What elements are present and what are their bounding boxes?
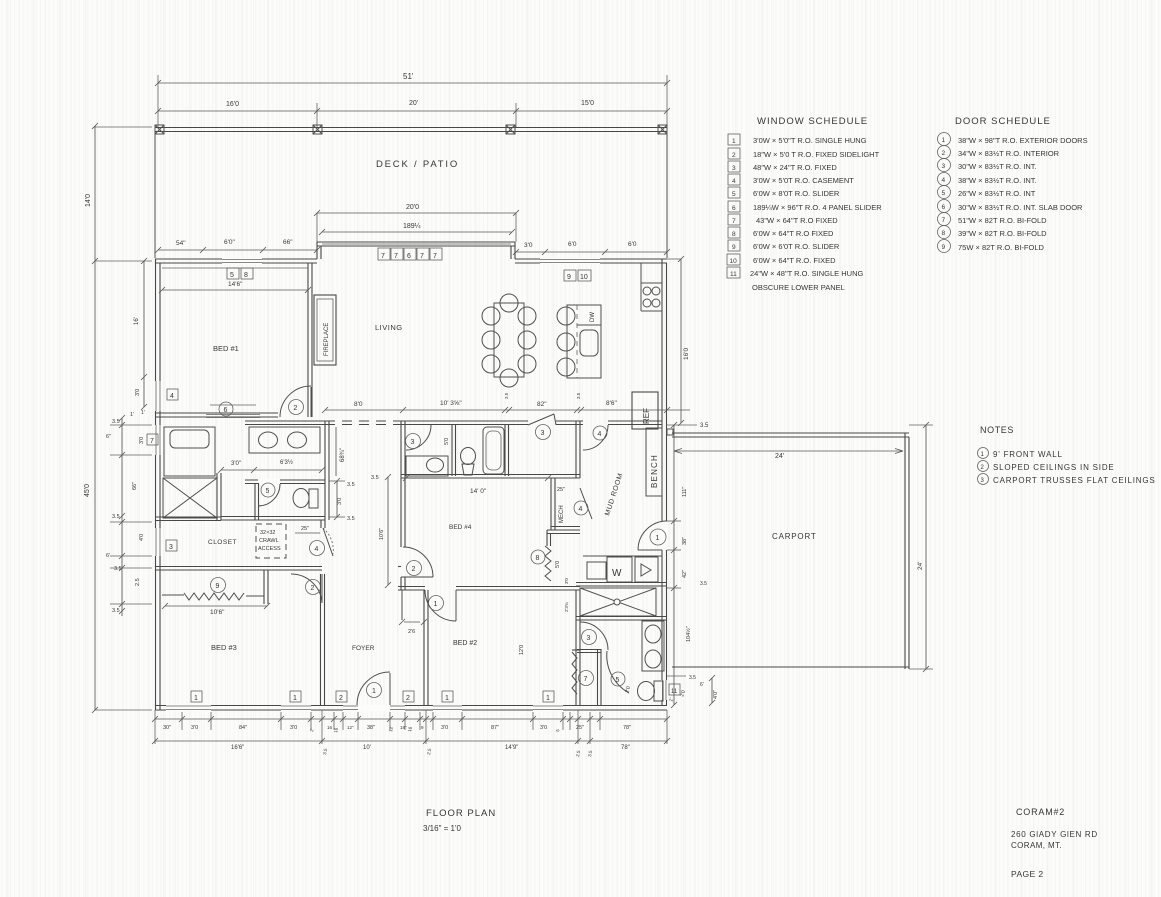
bed4 closet top: [547, 529, 580, 531]
bench box: [646, 428, 662, 496]
svg-text:5: 5: [266, 488, 270, 495]
window 9/10 opening: [540, 258, 600, 264]
svg-text:BED #3: BED #3: [211, 643, 237, 652]
tub wall: [504, 425, 506, 476]
svg-text:2: 2: [311, 585, 315, 592]
svg-text:16'0: 16'0: [226, 101, 239, 108]
door tag 3: [536, 425, 551, 440]
dim 24' carport right: [925, 425, 927, 669]
svg-text:38"W × 98"T R.O. EXTERIOR D: 38"W × 98"T R.O. EXTERIOR DOORS: [958, 136, 1088, 145]
dimension 189 1/4: [322, 231, 512, 233]
svg-text:16': 16': [134, 317, 140, 325]
svg-text:84": 84": [239, 725, 247, 731]
dimension 20'0 over living bump: [317, 212, 516, 214]
svg-text:3.5: 3.5: [700, 423, 709, 429]
window tag 2: [336, 691, 347, 702]
svg-text:3.5: 3.5: [504, 392, 509, 399]
svg-text:3.5: 3.5: [112, 608, 120, 614]
svg-text:3'0: 3'0: [441, 725, 448, 731]
svg-text:3: 3: [541, 430, 545, 437]
svg-text:10'6": 10'6": [210, 609, 225, 616]
bottom exterior wall: [155, 705, 667, 707]
svg-text:4'0": 4'0": [713, 690, 719, 699]
svg-text:10': 10': [363, 745, 371, 751]
svg-text:3.5: 3.5: [347, 516, 355, 522]
dim 14'6" bed1: [162, 289, 308, 291]
window tag 5: [227, 268, 239, 279]
svg-text:189¼W × 96"T R.O. 4 PANEL SL: 189¼W × 96"T R.O. 4 PANEL SLIDER: [753, 203, 882, 212]
svg-text:14'0: 14'0: [85, 194, 92, 207]
door schedule rows: [938, 133, 1088, 146]
svg-text:6'0: 6'0: [628, 241, 637, 248]
door tag 8: [531, 550, 545, 564]
svg-text:38": 38": [682, 537, 688, 545]
svg-text:6'0W × 8'0T R.O. SLIDER: 6'0W × 8'0T R.O. SLIDER: [753, 189, 840, 198]
svg-text:1: 1: [445, 695, 449, 702]
bath2 door 3 swing: [580, 622, 608, 650]
svg-text:8'0: 8'0: [354, 401, 363, 408]
svg-text:BED #4: BED #4: [449, 524, 472, 531]
svg-text:5'0: 5'0: [555, 561, 561, 568]
bifold door 8 zigzag: [545, 546, 551, 581]
top wall left section: [155, 258, 317, 260]
svg-text:6'0: 6'0: [568, 241, 577, 248]
window tag 8: [241, 268, 253, 279]
svg-text:5: 5: [732, 191, 736, 198]
svg-text:32×32: 32×32: [260, 530, 275, 536]
dimension row 3'0 6'0 6'0 right of bump: [516, 251, 667, 253]
svg-text:14'9": 14'9": [505, 745, 518, 751]
svg-text:38": 38": [367, 725, 375, 731]
crawl access dashed box: [256, 524, 286, 558]
svg-text:16: 16: [327, 725, 333, 730]
svg-text:34"W × 83½T R.O. INTERIOR: 34"W × 83½T R.O. INTERIOR: [958, 149, 1060, 158]
svg-text:8: 8: [536, 555, 540, 562]
vanity top wall: [245, 420, 333, 422]
bath tub: [483, 427, 504, 474]
svg-text:20'0: 20'0: [406, 204, 419, 211]
svg-text:30": 30": [163, 725, 171, 731]
shower stall: [580, 588, 656, 616]
door tag 2 foyer: [306, 580, 321, 595]
svg-text:68¾": 68¾": [340, 448, 346, 462]
vanity master bath: [249, 427, 320, 453]
svg-text:BED #2: BED #2: [453, 640, 477, 647]
svg-text:6'0": 6'0": [224, 239, 235, 246]
svg-text:OBSCURE LOWER PANEL: OBSCURE LOWER PANEL: [752, 283, 845, 292]
door tag 6: [219, 402, 233, 416]
svg-text:2'3¾: 2'3¾: [564, 602, 569, 612]
svg-text:3.5: 3.5: [576, 392, 581, 399]
svg-text:3.5: 3.5: [700, 581, 707, 587]
bed2 door 1 swing: [425, 590, 456, 621]
svg-text:FOYER: FOYER: [352, 645, 375, 652]
svg-text:7: 7: [732, 218, 736, 225]
dim 10'6": [165, 605, 267, 607]
door tag 1 front: [367, 683, 382, 698]
door tag 4 mech: [574, 501, 588, 515]
svg-text:6'0W × 64"T R.O. FIXED: 6'0W × 64"T R.O. FIXED: [753, 256, 836, 265]
svg-text:3: 3: [587, 635, 591, 642]
svg-text:FLOOR PLAN: FLOOR PLAN: [426, 808, 496, 819]
mech closet: [550, 478, 552, 530]
svg-text:2: 2: [412, 566, 416, 573]
kitchen island: [557, 307, 575, 325]
deck post mid-right: [506, 125, 515, 134]
window tag 11: [669, 684, 680, 695]
svg-text:6'3½: 6'3½: [280, 459, 293, 466]
toilet room bottom wall: [221, 516, 325, 518]
svg-text:1: 1: [434, 601, 438, 608]
door tag 2: [289, 400, 304, 415]
deck front edge (double line): [155, 127, 667, 129]
svg-text:6: 6: [224, 407, 228, 414]
svg-text:24': 24': [775, 453, 784, 460]
svg-text:16'6": 16'6": [231, 745, 244, 751]
master bath right wall: [324, 421, 326, 520]
door tag 9: [211, 578, 226, 593]
small dims right of toilet room: [336, 481, 338, 517]
foyer top nib: [398, 586, 424, 588]
svg-text:2'6: 2'6: [408, 629, 415, 635]
bed3/foyer wall: [320, 574, 322, 705]
svg-text:43"W × 64"T R.O FIXED: 43"W × 64"T R.O FIXED: [756, 216, 838, 225]
door tag 4: [593, 426, 607, 440]
svg-text:25": 25": [576, 725, 584, 731]
svg-text:10: 10: [580, 274, 588, 281]
door tag 4: [310, 541, 325, 556]
bed1 door 2 swing: [280, 386, 311, 417]
dryer: [635, 557, 658, 582]
bed2 right wall: [575, 590, 577, 705]
svg-text:16'0: 16'0: [683, 348, 690, 360]
svg-text:3: 3: [732, 165, 736, 172]
svg-text:20': 20': [409, 100, 418, 107]
bath2 vanity two sinks: [642, 621, 664, 671]
front door opening: [358, 705, 390, 712]
svg-text:9: 9: [567, 274, 571, 281]
bump-out jog right: [514, 242, 516, 259]
deck post mid-left: [313, 125, 322, 134]
svg-text:51': 51': [403, 72, 414, 81]
svg-text:78": 78": [623, 725, 631, 731]
svg-text:3'0": 3'0": [231, 461, 241, 467]
svg-text:CLOSET: CLOSET: [208, 539, 237, 546]
svg-text:3'0W × 5'0T R.O. CASEMENT: 3'0W × 5'0T R.O. CASEMENT: [753, 176, 854, 185]
svg-text:1: 1: [942, 137, 946, 144]
svg-text:6: 6: [732, 205, 736, 212]
left wall small dims: [121, 418, 123, 616]
svg-text:LIVING: LIVING: [375, 323, 403, 332]
svg-text:45'0: 45'0: [84, 484, 91, 497]
svg-text:10' 3⅝": 10' 3⅝": [440, 400, 462, 407]
svg-text:1: 1: [293, 695, 297, 702]
right wall dims column: [673, 425, 675, 705]
bottom dim row 1: [155, 718, 667, 720]
svg-text:14' 0": 14' 0": [470, 488, 487, 495]
svg-text:5: 5: [942, 190, 946, 197]
window 11 opening right wall: [661, 680, 668, 700]
right exterior wall: [661, 259, 663, 705]
svg-text:12'0: 12'0: [519, 645, 525, 655]
bath vanity + sink: [406, 456, 448, 476]
bath divider wall: [451, 425, 453, 476]
svg-text:W: W: [612, 568, 622, 579]
svg-text:9: 9: [732, 244, 736, 251]
svg-text:8: 8: [942, 230, 946, 237]
svg-text:3'0: 3'0: [524, 242, 533, 249]
svg-text:1: 1: [656, 535, 660, 542]
extension lines below bottom wall: [155, 710, 667, 744]
window tags 7 7 6 7 7: [378, 248, 390, 260]
window tag 1: [442, 691, 453, 702]
island sink: [580, 330, 598, 356]
svg-text:CORAM#2: CORAM#2: [1016, 807, 1065, 817]
closet door 4 wall + leaf: [320, 520, 322, 528]
bottom wall window openings: [166, 705, 211, 712]
bed4 left wall lower: [400, 577, 402, 590]
dimension 14'0 left of deck: [94, 126, 96, 261]
svg-text:PAGE 2: PAGE 2: [1011, 869, 1043, 879]
svg-text:6: 6: [407, 253, 411, 260]
front door 1 swing arc: [357, 672, 390, 705]
bed1 bottom wall: [155, 412, 278, 414]
svg-text:3: 3: [169, 544, 173, 551]
dimension row 16'0 / 20' / 15'0: [158, 110, 667, 112]
bottom dim row 2: [155, 740, 667, 742]
svg-text:30"W × 83½T R.O. INT. SLAB: 30"W × 83½T R.O. INT. SLAB DOOR: [958, 203, 1083, 212]
door 3 open leaf hall/mud: [528, 414, 554, 425]
svg-text:2: 2: [339, 695, 343, 702]
svg-text:7: 7: [433, 253, 437, 260]
svg-text:4'0: 4'0: [139, 534, 145, 541]
window schedule rows: [728, 134, 867, 145]
svg-text:4: 4: [732, 178, 736, 185]
svg-text:7: 7: [942, 217, 946, 224]
svg-text:CARPORT: CARPORT: [772, 532, 817, 541]
window tag 2: [403, 691, 414, 702]
svg-text:3'0: 3'0: [191, 725, 198, 731]
door tag 3 bath: [406, 434, 421, 449]
corridor dimension line 8'0 10'3 82 8'6: [325, 409, 690, 411]
kitchen right wall dim 16'0: [680, 259, 682, 423]
svg-text:189¼: 189¼: [403, 223, 421, 230]
bath bottom wall: [401, 474, 580, 476]
toilet master: [293, 489, 309, 508]
svg-text:2: 2: [294, 405, 298, 412]
svg-text:4: 4: [170, 393, 174, 400]
svg-text:1': 1': [130, 412, 134, 418]
shelf line bed1 closet: [210, 404, 256, 406]
svg-text:3'0: 3'0: [564, 578, 569, 584]
svg-text:82": 82": [537, 401, 547, 408]
window tag 10: [578, 270, 591, 281]
svg-text:3'0: 3'0: [337, 498, 343, 505]
svg-text:SLOPED CEILINGS IN SIDE: SLOPED CEILINGS IN SIDE: [993, 463, 1115, 472]
dim 24' carport top: [674, 450, 903, 452]
svg-text:6": 6": [106, 434, 111, 440]
svg-text:15'0: 15'0: [581, 100, 594, 107]
svg-text:3.5: 3.5: [371, 475, 379, 481]
closet band top wall: [155, 516, 221, 518]
water closet wall: [597, 649, 599, 705]
svg-text:7: 7: [584, 676, 588, 683]
exterior door 1 swing (carport to mud): [638, 521, 667, 550]
svg-text:75W × 82T R.O. BI-FOLD: 75W × 82T R.O. BI-FOLD: [958, 243, 1045, 252]
svg-text:4: 4: [579, 506, 583, 513]
dim 68 3/4: [335, 427, 337, 476]
svg-text:3.5: 3.5: [114, 566, 122, 572]
svg-text:MECH: MECH: [559, 505, 565, 523]
svg-text:2: 2: [942, 150, 946, 157]
svg-text:9' FRONT WALL: 9' FRONT WALL: [993, 450, 1063, 459]
svg-text:1: 1: [546, 695, 550, 702]
dashed opening living/hall: [325, 420, 398, 422]
living bump-out top wall (4 panel slider win 6): [317, 241, 515, 243]
window tag 9: [564, 270, 576, 281]
extension lines top: [157, 75, 159, 127]
svg-text:WINDOW SCHEDULE: WINDOW SCHEDULE: [757, 116, 868, 127]
svg-text:66": 66": [283, 239, 293, 246]
door tag 3 bath2: [582, 630, 597, 645]
master shower: [163, 478, 217, 518]
svg-text:38"W × 83½T R.O. INT.: 38"W × 83½T R.O. INT.: [958, 176, 1037, 185]
toilet room walls: [245, 479, 325, 481]
shower right wall: [216, 473, 218, 520]
svg-text:1: 1: [372, 688, 376, 695]
door 4 mudroom swing: [583, 425, 608, 450]
window tag 1: [543, 691, 554, 702]
svg-text:7: 7: [150, 438, 154, 445]
svg-text:7: 7: [381, 253, 385, 260]
door 5 bath2 swing: [607, 651, 629, 693]
svg-text:4: 4: [315, 546, 319, 553]
door tag 5: [261, 483, 275, 497]
svg-text:1': 1': [141, 410, 145, 416]
bump-out jog left: [316, 242, 318, 259]
svg-text:11: 11: [730, 271, 737, 278]
door 1 opening right wall (to carport): [661, 521, 668, 550]
svg-text:104½": 104½": [685, 626, 692, 642]
top wall right section: [515, 258, 667, 260]
svg-text:6'0W × 64"T R.O FIXED: 6'0W × 64"T R.O FIXED: [753, 229, 834, 238]
dimension 51' overall: [158, 82, 667, 84]
note 1: [978, 448, 1063, 460]
utility sink: [587, 562, 606, 579]
bed4 bottom wall: [401, 586, 425, 588]
svg-text:3'0W × 5'0"T R.O. SINGLE HUNG: 3'0W × 5'0"T R.O. SINGLE HUNG: [753, 136, 867, 145]
dining table: [500, 294, 518, 312]
svg-text:1: 1: [732, 138, 736, 145]
svg-text:9: 9: [216, 583, 220, 590]
bed1 right wall: [307, 263, 309, 417]
svg-text:4: 4: [598, 431, 602, 438]
foyer/bed2 wall: [423, 590, 425, 705]
carport left stub: [667, 429, 673, 435]
svg-text:14'6": 14'6": [228, 281, 243, 288]
central bath left wall / bed4 left wall: [400, 421, 402, 547]
deck post left: [155, 125, 164, 134]
window tag 1: [191, 691, 202, 702]
svg-text:11: 11: [671, 689, 678, 695]
svg-text:BENCH: BENCH: [650, 454, 659, 488]
svg-text:54": 54": [176, 240, 186, 247]
svg-text:5: 5: [230, 272, 234, 279]
bath toilet: [461, 448, 476, 465]
dim 10'6" vertical: [387, 477, 389, 585]
left exterior wall: [155, 259, 157, 710]
fireplace: [314, 295, 336, 365]
svg-text:3.5: 3.5: [112, 514, 120, 520]
svg-text:66": 66": [132, 482, 138, 490]
svg-text:7: 7: [420, 253, 424, 260]
dim 3'0" / 6'3 1/2 line: [221, 469, 322, 471]
door tag 1: [650, 529, 666, 545]
svg-text:ACCESS: ACCESS: [258, 546, 281, 552]
svg-text:3'0: 3'0: [139, 437, 145, 444]
dimension 45'0 left wall: [94, 261, 96, 710]
door tag 7: [579, 671, 594, 686]
left 16' dim: [143, 261, 145, 377]
closet bottom wall: [155, 566, 322, 568]
svg-text:DECK / PATIO: DECK / PATIO: [376, 159, 459, 170]
carport right wall: [904, 433, 906, 669]
svg-text:CARPORT TRUSSES FLAT CEILINGS: CARPORT TRUSSES FLAT CEILINGS: [993, 476, 1156, 485]
svg-text:3/16" = 1'0: 3/16" = 1'0: [423, 824, 462, 833]
svg-text:8: 8: [732, 231, 736, 238]
pocket door 6 master entry: [206, 414, 260, 416]
bifold door 7 zigzag: [572, 652, 577, 694]
window 3 opening left wall: [154, 528, 162, 556]
corridor wall (bath top): [398, 420, 528, 422]
window 5/8 opening in top wall: [222, 258, 262, 264]
window 7 opening left wall: [154, 425, 162, 455]
svg-text:12": 12": [347, 725, 354, 730]
bifold door 9 zigzag: [162, 594, 184, 596]
svg-text:78": 78": [621, 745, 630, 751]
window tag 3: [166, 540, 177, 551]
svg-text:25": 25": [301, 526, 309, 532]
bath door 3 swing: [406, 425, 431, 450]
svg-text:4: 4: [942, 177, 946, 184]
bed1 top sill line: [162, 267, 308, 269]
svg-text:5: 5: [616, 677, 620, 684]
svg-text:2: 2: [732, 152, 736, 159]
svg-text:DOOR SCHEDULE: DOOR SCHEDULE: [955, 116, 1051, 127]
svg-text:3'0: 3'0: [135, 389, 141, 396]
carport top wall: [672, 432, 909, 434]
master bed furniture: [164, 427, 215, 476]
window tag 7: [147, 434, 158, 445]
svg-text:42": 42": [682, 570, 688, 578]
svg-text:18": 18": [400, 725, 407, 730]
svg-text:BED #1: BED #1: [213, 344, 239, 353]
svg-text:CRAWL: CRAWL: [259, 538, 279, 544]
note 2: [978, 461, 1115, 473]
shower bottom wall: [576, 616, 667, 618]
svg-text:3: 3: [411, 439, 415, 446]
svg-text:48"W × 24"T R.O. FIXED: 48"W × 24"T R.O. FIXED: [753, 163, 837, 172]
svg-text:39"W × 82T R.O. BI-FOLD: 39"W × 82T R.O. BI-FOLD: [958, 229, 1047, 238]
door tag 5 bath2: [611, 672, 625, 686]
shower top wall: [576, 582, 667, 584]
svg-text:260 GlADY GlEN RD: 260 GlADY GlEN RD: [1011, 830, 1098, 839]
svg-text:6': 6': [106, 553, 110, 559]
svg-text:8'6": 8'6": [606, 400, 617, 407]
toilet bath2: [654, 681, 663, 701]
svg-text:6: 6: [942, 204, 946, 211]
svg-text:2.5: 2.5: [135, 578, 141, 586]
